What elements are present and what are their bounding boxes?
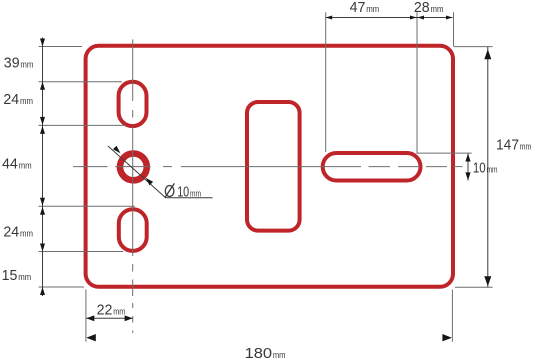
svg-text:24: 24 bbox=[3, 92, 19, 108]
svg-text:mm: mm bbox=[431, 4, 444, 14]
svg-text:10: 10 bbox=[177, 185, 189, 201]
svg-text:180: 180 bbox=[245, 346, 273, 362]
svg-text:47: 47 bbox=[350, 0, 366, 16]
svg-text:mm: mm bbox=[19, 161, 32, 171]
svg-text:28: 28 bbox=[414, 0, 430, 16]
svg-text:mm: mm bbox=[20, 60, 33, 70]
svg-text:mm: mm bbox=[20, 229, 33, 239]
svg-text:mm: mm bbox=[273, 350, 286, 360]
svg-text:mm: mm bbox=[20, 96, 33, 106]
svg-text:24: 24 bbox=[3, 225, 19, 241]
svg-text:mm: mm bbox=[190, 189, 201, 199]
svg-text:44: 44 bbox=[2, 157, 18, 173]
svg-text:39: 39 bbox=[4, 56, 20, 72]
svg-text:mm: mm bbox=[113, 306, 125, 316]
svg-text:mm: mm bbox=[18, 272, 31, 282]
svg-text:147: 147 bbox=[496, 137, 519, 153]
svg-text:10: 10 bbox=[473, 161, 486, 177]
svg-text:22: 22 bbox=[97, 302, 113, 318]
svg-text:mm: mm bbox=[487, 165, 498, 175]
svg-text:15: 15 bbox=[2, 268, 18, 284]
svg-text:mm: mm bbox=[366, 4, 379, 14]
svg-text:mm: mm bbox=[520, 141, 532, 151]
